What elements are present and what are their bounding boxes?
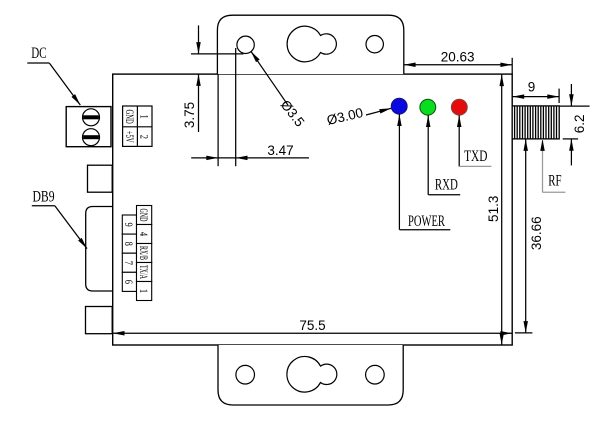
LED txd (red) bbox=[451, 99, 467, 115]
DC pin label table bbox=[123, 106, 152, 146]
RF antenna connector (knurled) bbox=[512, 106, 559, 139]
bottom mounting tab bbox=[218, 345, 403, 405]
svg-text:3.47: 3.47 bbox=[267, 143, 293, 158]
DB9 pin table right column (pins 5-1) bbox=[137, 206, 152, 225]
dimension 3.47 bbox=[217, 74, 219, 166]
small block above DB9 bbox=[88, 165, 113, 192]
svg-text:6: 6 bbox=[122, 280, 135, 284]
label TXD with leader bbox=[458, 115, 460, 166]
svg-text:2: 2 bbox=[137, 135, 150, 139]
bottom tab left hole bbox=[236, 365, 255, 384]
main enclosure body bbox=[113, 74, 513, 345]
svg-text:GND: GND bbox=[122, 109, 136, 123]
label RXD with leader bbox=[427, 115, 429, 195]
svg-text:1: 1 bbox=[136, 289, 149, 293]
svg-text:+5V: +5V bbox=[122, 131, 136, 143]
svg-text:DC: DC bbox=[31, 44, 46, 61]
LED diameter callout 3.00 bbox=[366, 108, 391, 115]
svg-text:51.3: 51.3 bbox=[486, 196, 501, 222]
svg-text:DB9: DB9 bbox=[33, 189, 55, 206]
DC terminal block bbox=[66, 107, 111, 147]
top tab left hole bbox=[237, 36, 254, 53]
dimension 20.63 bbox=[404, 64, 512, 66]
svg-text:20.63: 20.63 bbox=[441, 50, 475, 65]
dimension 9 bbox=[512, 96, 559, 98]
dimension 3.75 bbox=[191, 53, 244, 55]
svg-text:1: 1 bbox=[137, 115, 150, 119]
svg-text:9: 9 bbox=[122, 223, 135, 227]
svg-text:8: 8 bbox=[122, 242, 135, 246]
label RF with leader bbox=[542, 139, 544, 192]
label POWER with leader bbox=[398, 114, 400, 230]
svg-text:GND: GND bbox=[136, 209, 149, 222]
svg-text:75.5: 75.5 bbox=[299, 318, 325, 333]
top tab right hole bbox=[366, 36, 383, 53]
DC screw 1 bbox=[83, 109, 100, 126]
svg-text:4: 4 bbox=[136, 232, 149, 237]
svg-text:7: 7 bbox=[122, 261, 135, 265]
dimension 36.66 bbox=[525, 139, 527, 333]
svg-text:RF: RF bbox=[548, 172, 562, 190]
svg-text:TXD: TXD bbox=[464, 148, 487, 165]
small block below DB9 bbox=[86, 307, 113, 334]
bottom tab right hole bbox=[366, 365, 385, 384]
LED rxd (green) bbox=[420, 99, 436, 115]
svg-text:36.66: 36.66 bbox=[529, 216, 544, 250]
svg-text:9: 9 bbox=[528, 80, 536, 95]
hole diameter callout 3.5 bbox=[251, 51, 288, 105]
svg-text:POWER: POWER bbox=[408, 212, 446, 230]
LED power (blue) bbox=[391, 98, 407, 114]
dimension 51.3 bbox=[501, 74, 503, 345]
DB9 connector shell bbox=[86, 207, 113, 292]
svg-text:RXD: RXD bbox=[435, 175, 458, 193]
top tab keyhole slot bbox=[287, 26, 336, 62]
svg-text:TX/A: TX/A bbox=[136, 265, 149, 279]
dimension 6.2 bbox=[559, 105, 590, 107]
svg-text:3.75: 3.75 bbox=[182, 102, 197, 128]
dimension 75.5 bbox=[113, 332, 513, 334]
DC screw 2 bbox=[83, 129, 100, 146]
svg-text:RX/B: RX/B bbox=[136, 246, 149, 260]
svg-text:6.2: 6.2 bbox=[572, 115, 587, 134]
top mounting tab bbox=[217, 15, 403, 74]
bottom tab keyhole slot bbox=[287, 357, 337, 393]
DB9 pin table left column (pins 9-6) bbox=[122, 215, 136, 234]
